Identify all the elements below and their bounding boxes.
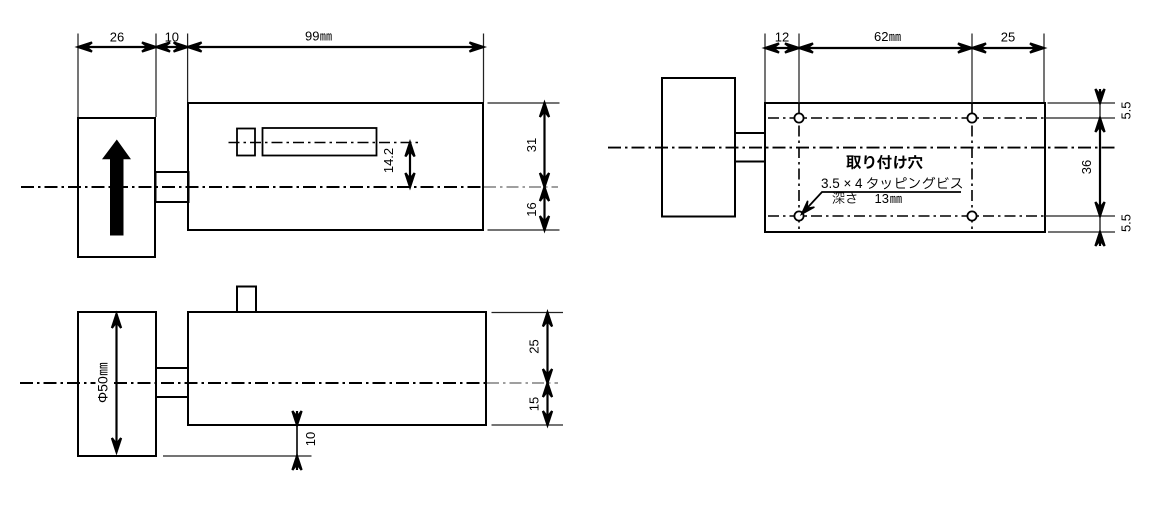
svg-text:15: 15: [526, 397, 541, 411]
knob body rectangle (side view): [78, 118, 155, 257]
label torituke-ana (mounting hole title): [846, 155, 922, 169]
extension line x=78: [77, 34, 79, 118]
dimension 62mm label: [874, 29, 901, 44]
dimension 62mm arrow: [799, 43, 972, 52]
hole centerline vertical left: [798, 104, 800, 231]
dimension 5.5 top label: [1118, 101, 1133, 119]
dimension 99mm label: [305, 29, 332, 44]
extension line y=103 far right: [1048, 102, 1116, 104]
dimension 31 arrow: [540, 103, 549, 187]
dimension 16 label: [524, 202, 539, 216]
svg-text:Φ50: Φ50: [95, 376, 111, 403]
dimension 5.5 top outside arrow: [1095, 89, 1104, 103]
svg-text:5.5: 5.5: [1118, 101, 1133, 119]
svg-text:25: 25: [1001, 30, 1015, 45]
svg-text:16: 16: [524, 202, 539, 216]
dimension 15 label: [526, 397, 541, 411]
dimension 10 label (bottom): [303, 432, 318, 446]
main body rectangle (side view): [188, 103, 483, 230]
direction arrow (filled, pointing up): [102, 140, 131, 236]
top boss square (bottom view): [237, 287, 256, 313]
dimension 99mm arrow: [188, 42, 484, 51]
svg-text:12: 12: [775, 30, 789, 45]
shaft connector rectangle (top view): [735, 133, 765, 162]
main body rectangle (bottom view): [188, 312, 486, 425]
svg-text:5.5: 5.5: [1118, 214, 1133, 232]
centerline of shaft axis (side view): [21, 186, 558, 188]
shaft connector rectangle (side view): [156, 172, 189, 202]
dimension 25 label (top view): [1001, 30, 1015, 45]
svg-text:62: 62: [874, 29, 888, 44]
knob body rectangle (bottom view): [78, 312, 156, 456]
dimension 14.2 label: [381, 148, 396, 173]
dimension 36 label: [1079, 160, 1094, 174]
shaft connector rectangle (bottom view): [156, 368, 188, 397]
dimension 10 label: [165, 30, 179, 45]
dimension 25 arrow (top view): [972, 43, 1044, 52]
dimension 25 label: [526, 339, 541, 353]
leader line to hole: [803, 192, 961, 213]
dimension 36 arrow: [1095, 118, 1104, 216]
dimension phi50 label: [95, 361, 112, 405]
svg-text:4: 4: [855, 176, 863, 191]
dimension 12 arrow: [765, 43, 799, 52]
dimension 10 arrow: [156, 42, 188, 51]
extension line x=483.5: [483, 34, 485, 103]
knob body rectangle (top view): [662, 78, 735, 217]
inner switch small rectangle: [237, 129, 255, 156]
svg-text:×: ×: [844, 176, 852, 191]
centerline of shaft axis (top view): [608, 147, 1115, 149]
dimension 26 label: [110, 30, 124, 45]
extension line x=156: [155, 34, 157, 118]
svg-text:13: 13: [875, 191, 889, 206]
svg-text:31: 31: [524, 138, 539, 152]
extension line y=456 bottom: [163, 455, 312, 457]
extension line x=187.6: [187, 34, 189, 103]
svg-text:99: 99: [305, 29, 319, 44]
centerline of shaft axis (bottom view): [20, 382, 558, 384]
mounting hole bottom-left: [794, 211, 803, 220]
dimension 26 arrow: [78, 42, 156, 51]
label 3.5x4 tapping screw: [821, 176, 962, 191]
main body rectangle (top view): [765, 103, 1045, 232]
svg-text:26: 26: [110, 30, 124, 45]
extension line x=972 top: [971, 34, 973, 104]
extension line y=118 far right: [1045, 117, 1115, 119]
svg-text:10: 10: [303, 432, 318, 446]
hole centerline horizontal bottom: [768, 215, 1044, 217]
switch centerline: [229, 142, 422, 144]
label depth 13mm: [833, 191, 902, 206]
dimension 16 arrow: [540, 187, 549, 230]
extension line x=1044 top: [1043, 34, 1045, 103]
extension line x=799 top: [798, 34, 800, 104]
dimension 5.5 top connector line: [1099, 103, 1101, 118]
mounting hole top-right: [967, 113, 976, 122]
hole centerline vertical right: [971, 104, 973, 231]
extension line x=765 top: [764, 34, 766, 103]
svg-text:10: 10: [165, 30, 179, 45]
dimension 5.5 bottom outside arrow: [1095, 232, 1104, 246]
extension line y=103 right: [488, 102, 560, 104]
svg-text:25: 25: [526, 339, 541, 353]
dimension 5.5 bottom label: [1118, 214, 1133, 232]
svg-text:3.5: 3.5: [821, 176, 840, 191]
extension line y=216 far right: [1045, 215, 1115, 217]
dimension 15 arrow: [543, 383, 552, 425]
extension line y=232 far right: [1048, 231, 1115, 233]
svg-text:36: 36: [1079, 160, 1094, 174]
extension line y=230 right: [488, 229, 560, 231]
dimension 14.2 arrow: [405, 143, 414, 188]
dimension 10 lower outside arrow: [292, 456, 301, 470]
dimension 10 line (bottom): [296, 425, 298, 456]
hole centerline horizontal top: [768, 117, 1044, 119]
extension line y=312.5 right: [492, 312, 564, 314]
dimension 31 label: [524, 138, 539, 152]
leader arrowhead: [802, 201, 815, 214]
dimension 25 arrow: [543, 313, 552, 384]
inner slot long rectangle: [263, 128, 377, 156]
extension line y=425 right: [492, 424, 564, 426]
dimension 12 label: [775, 30, 789, 45]
mounting hole bottom-right: [967, 211, 976, 220]
dimension 10 upper outside arrow: [292, 411, 301, 425]
svg-text:14.2: 14.2: [381, 148, 396, 173]
mounting hole top-left: [794, 113, 803, 122]
dimension phi50 arrow: [112, 314, 121, 452]
dimension 5.5 bottom connector line: [1099, 216, 1101, 232]
